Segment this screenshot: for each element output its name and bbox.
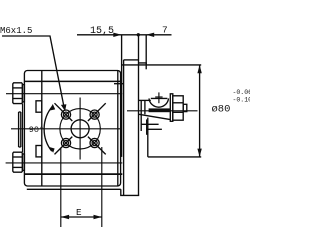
coupling flat top [151,97,168,99]
90 degree dimension arc [44,106,52,151]
bolt hole bottom-left [61,138,70,147]
seal ring band [149,108,170,112]
dia80 top extension line [122,64,202,66]
flange top edge [124,59,139,61]
upper hex fitting [13,83,25,104]
side view shaft centerline [127,110,198,112]
shaft nut [173,96,183,120]
dia80 arrowhead down [197,149,201,157]
extension line pilot face [121,35,123,157]
M6x1.5 leader arrowhead [61,104,67,111]
arrowhead at pilot face [113,33,121,37]
top dimension line 15,5 / 7 [77,34,172,36]
top port centerline [6,93,122,95]
diagonal centerline bottom-right [88,137,106,155]
bolt hole top-left [61,110,70,119]
bolt hole bottom-right [90,138,99,147]
arrowhead at 7 ext line [146,33,154,37]
body horizontal joint line bottom [24,173,122,175]
svg-text:-0.10: -0.10 [233,97,251,104]
housing line v1 [146,119,148,134]
E dimension line [61,216,102,218]
dia80 arrowhead up [197,65,201,73]
flange front face [123,60,125,196]
svg-text:-0.06: -0.06 [233,89,251,96]
body horizontal joint line top [24,80,121,82]
shaft washer [170,94,173,122]
pump body front view outline [24,71,120,187]
housing line h1 [141,123,158,125]
left boss between hexes [19,104,23,153]
flange bottom edge [121,189,139,195]
dia80 bottom extension line [148,156,201,158]
diagonal centerline top-right [88,103,106,121]
M6x1.5 leader line [2,36,64,109]
shaft circle [71,120,89,138]
housing line h2 [147,128,162,130]
E extension line right [101,147,103,227]
seal housing neck [139,100,151,131]
rear cover bottom edge [27,188,121,190]
bearing cone lower edge [139,114,170,119]
extension line flange back [138,35,140,196]
bolt hole top-right [90,110,99,119]
svg-text:E: E [76,207,82,218]
svg-text:15,5: 15,5 [90,26,114,37]
E extension line left [60,148,62,228]
shaft end cap [183,104,187,111]
svg-text:90°: 90° [29,125,44,135]
arc arrowhead top [49,104,55,111]
lower hex fitting [13,152,25,172]
svg-text:7: 7 [162,24,168,35]
coupling crosshair [155,92,162,103]
main horizontal centerline [11,128,121,130]
svg-text:ø80: ø80 [212,104,231,116]
coupling bowl arc [149,98,169,107]
E arrowhead right [94,215,102,219]
body inner left edge [41,71,43,187]
bolt circle [60,109,100,149]
dot terminator [137,33,140,36]
joint stub top right [114,83,123,85]
svg-text:M6x1.5: M6x1.5 [0,26,32,36]
diagonal centerline top-left [55,103,73,121]
dia80 dimension line [199,65,201,157]
housing line v2 [147,118,149,157]
body inner right edge [117,71,119,187]
vertical centerline [79,98,81,160]
port recess rect upper [36,101,42,112]
bottom port centerline [6,162,123,164]
arc arrowhead bottom [49,147,55,153]
diagonal centerline bottom-left [55,137,73,155]
body step top edge [139,63,147,65]
port recess rect lower [36,146,42,157]
E arrowhead left [61,215,69,219]
extension line 7 right [145,35,147,70]
